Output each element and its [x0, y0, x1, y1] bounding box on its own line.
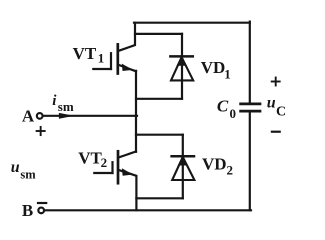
svg-text:1: 1 — [224, 66, 231, 81]
svg-text:A: A — [22, 107, 35, 126]
svg-text:0: 0 — [230, 106, 237, 121]
label VD2 — [202, 155, 233, 178]
terminal A — [37, 113, 43, 119]
svg-text:u: u — [267, 95, 276, 112]
svg-text:2: 2 — [227, 163, 234, 178]
label VT2 — [78, 149, 107, 170]
svg-text:VT: VT — [73, 44, 97, 63]
svg-text:VT: VT — [78, 149, 102, 168]
svg-text:B: B — [22, 201, 33, 220]
wire node A to midpoint — [43, 115, 137, 117]
transistor VT1 — [93, 23, 136, 74]
wire right rail lower — [249, 112, 251, 211]
arrow i_sm direction — [59, 113, 72, 118]
wire right rail upper — [249, 22, 251, 103]
svg-text:C: C — [276, 104, 286, 119]
svg-text:1: 1 — [98, 51, 105, 66]
svg-text:2: 2 — [101, 155, 108, 170]
svg-text:sm: sm — [20, 167, 36, 181]
wire top rail — [134, 22, 250, 24]
svg-text:sm: sm — [58, 99, 74, 114]
wire bottom rail — [45, 209, 251, 211]
label C0 — [217, 97, 236, 122]
label i_sm — [52, 93, 74, 114]
svg-text:VD: VD — [202, 155, 227, 174]
wire midpoint vertical — [135, 71, 137, 152]
label u_C — [267, 95, 286, 120]
transistor VT2 — [94, 151, 136, 210]
plus sign at u_C — [272, 78, 280, 86]
svg-text:VD: VD — [201, 58, 226, 77]
label u_sm — [11, 159, 37, 181]
label VT1 — [73, 44, 105, 66]
label VD1 — [201, 58, 231, 81]
svg-text:C: C — [217, 97, 229, 116]
diode VD2 — [136, 135, 194, 199]
minus sign at u_C — [272, 131, 280, 133]
plus sign at A — [37, 127, 45, 135]
terminal B — [38, 208, 44, 214]
minus sign at B — [38, 202, 46, 204]
svg-text:i: i — [52, 93, 57, 109]
svg-text:u: u — [11, 159, 20, 176]
capacitor C0 — [241, 104, 260, 111]
diode VD1 — [135, 34, 193, 99]
